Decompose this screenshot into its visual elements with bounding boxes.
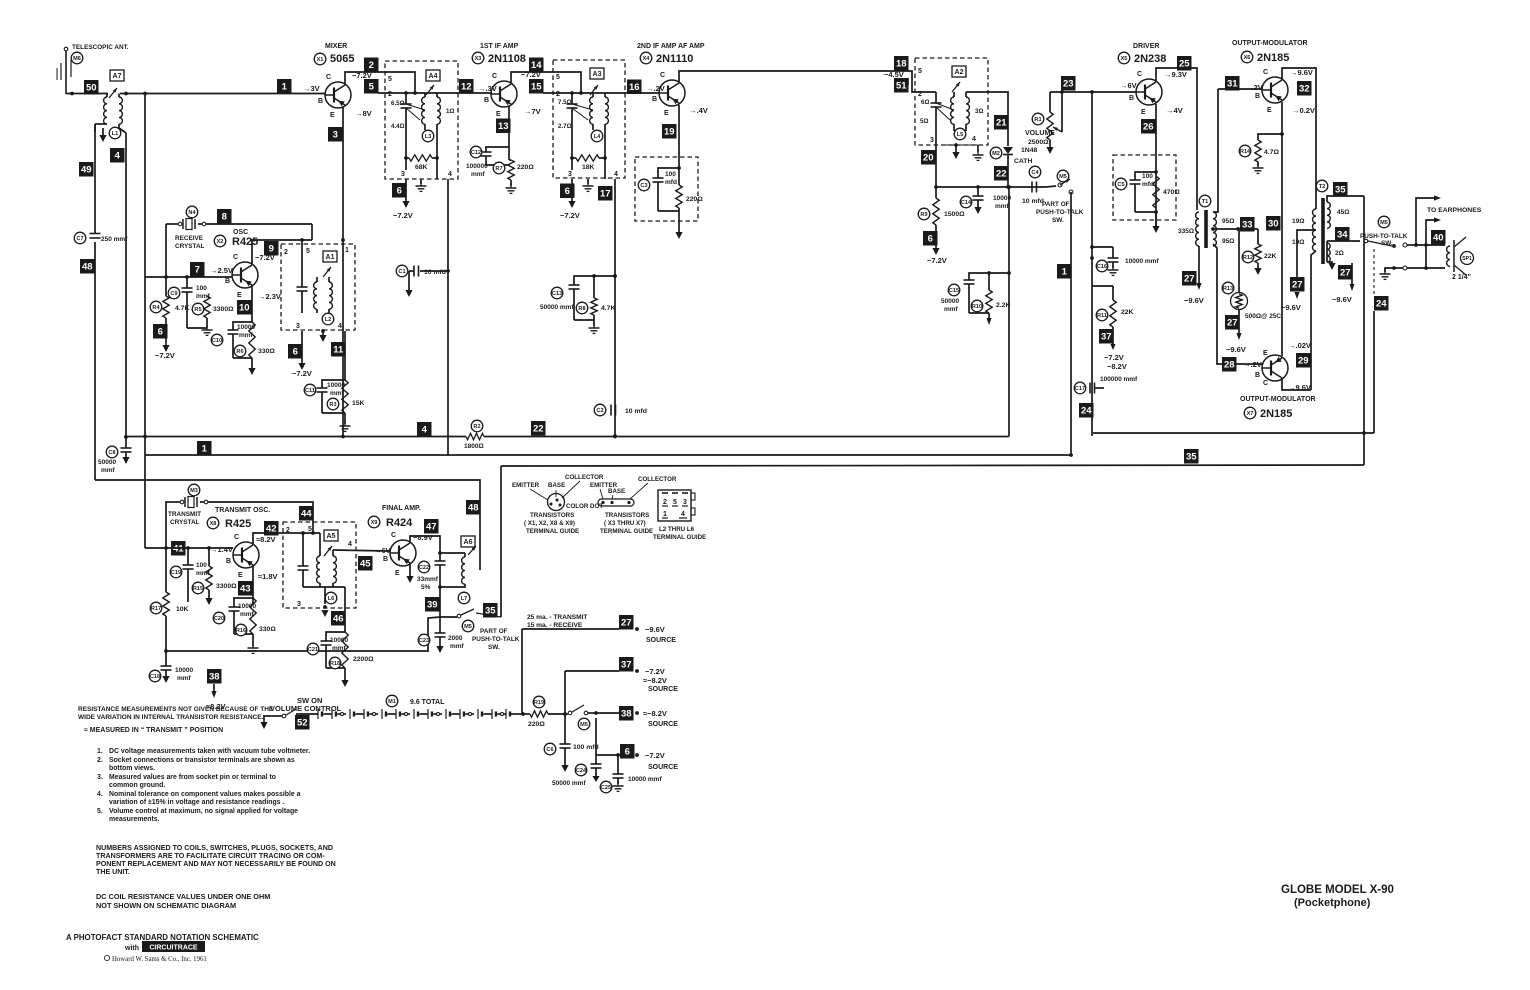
capacitor C16 10000mmf: [1096, 260, 1108, 272]
svg-text:C: C: [492, 73, 497, 80]
svg-text:mmf: mmf: [995, 203, 1010, 210]
svg-text:330Ω: 330Ω: [258, 348, 275, 355]
wire vertical antenna branch x95: [94, 124, 96, 480]
svg-text:A4: A4: [429, 73, 438, 80]
svg-text:31: 31: [1227, 79, 1238, 90]
resistor R12 22K: [1242, 229, 1276, 275]
callout 12: [459, 79, 474, 94]
callout 22 on bus A: [531, 421, 546, 436]
svg-text:2N1110: 2N1110: [656, 53, 693, 65]
svg-text:6Ω: 6Ω: [921, 99, 929, 106]
svg-text:4.7K: 4.7K: [175, 305, 189, 312]
svg-text:34: 34: [1337, 230, 1348, 241]
voltage ≈8.2V at X8 collector: [256, 535, 276, 544]
svg-text:X6: X6: [1244, 55, 1251, 61]
svg-text:37: 37: [621, 660, 632, 671]
node plug A7: [109, 70, 124, 98]
L5 pin 4: [972, 136, 976, 143]
wire down from earphone gnd node: [1373, 311, 1375, 433]
wire crystal to collector node: [206, 224, 312, 240]
svg-text:27: 27: [621, 618, 632, 629]
transformer T2: [1292, 180, 1349, 264]
svg-text:38: 38: [621, 709, 632, 720]
callout 5: [364, 79, 379, 94]
wire X3 emitter down: [508, 106, 510, 160]
transistor X3: [484, 73, 517, 118]
resistor R19 zigzag: [528, 711, 548, 728]
wire X2 emitter down: [251, 286, 253, 322]
svg-text:2200Ω: 2200Ω: [353, 656, 374, 663]
callout 15: [529, 79, 544, 94]
label 25ma transmit: [527, 614, 587, 621]
svg-text:RECEIVE: RECEIVE: [175, 235, 204, 242]
svg-text:C21: C21: [308, 647, 318, 653]
svg-text:mfd: mfd: [665, 179, 677, 186]
svg-text:49: 49: [81, 165, 92, 176]
wire X2 base line: [145, 275, 232, 279]
svg-text:→6V: →6V: [1120, 81, 1137, 90]
L5 pin 2: [918, 91, 922, 98]
svg-text:DC COIL RESISTANCE VALUES: DC COIL RESISTANCE VALUES UNDER ONE OHM: [96, 892, 270, 901]
svg-text:→6V: →6V: [374, 546, 391, 555]
svg-text:A PHOTOFACT STANDARD NOTATI: A PHOTOFACT STANDARD NOTATION SCHEMATIC: [66, 933, 259, 942]
svg-text:39: 39: [427, 600, 438, 611]
svg-text:Socket connections or transist: Socket connections or transistor termina…: [109, 757, 295, 764]
svg-text:VOLUME CONTROL: VOLUME CONTROL: [270, 704, 342, 713]
callout 37 source: [619, 657, 678, 693]
svg-text:variation of ±15% in voltage a: variation of ±15% in voltage and resista…: [109, 799, 284, 806]
svg-text:R9: R9: [920, 212, 927, 218]
capacitor C16 body: [1108, 247, 1160, 275]
wire 38 rail: [0, 0, 1, 1]
wire crystal loop: [166, 502, 313, 548]
svg-text:EMITTER: EMITTER: [512, 482, 540, 489]
wire 15 to L4: [543, 91, 660, 95]
svg-text:1800Ω: 1800Ω: [464, 443, 484, 450]
footer photofact line: [66, 933, 259, 942]
callout 32: [1297, 81, 1312, 96]
capacitor C13 50000mmf: [540, 274, 617, 320]
svg-text:19Ω: 19Ω: [1292, 218, 1304, 225]
wire antenna to switch A7: [66, 92, 108, 96]
callout 11: [331, 342, 346, 357]
svg-text:E: E: [395, 570, 400, 577]
svg-text:5: 5: [388, 76, 392, 83]
svg-text:3: 3: [930, 137, 934, 144]
label DRIVER X5 2N238: [1118, 43, 1166, 65]
resistor R8 4.7K: [576, 276, 615, 333]
svg-text:A6: A6: [464, 539, 473, 546]
callout 41: [171, 541, 186, 556]
svg-text:3: 3: [296, 323, 300, 330]
callout 48 final: [466, 500, 481, 515]
svg-text:220Ω: 220Ω: [517, 164, 534, 171]
svg-text:95Ω: 95Ω: [1222, 238, 1234, 245]
wire X3 collector up right: [511, 72, 581, 92]
wire C16 top: [1090, 245, 1113, 249]
label OUTPUT-MODULATOR X7 2N185: [1240, 396, 1316, 420]
svg-text:C24: C24: [576, 768, 587, 774]
note resistance measurements: [78, 706, 274, 734]
callout 27 source: [619, 615, 676, 644]
svg-text:100 mfd: 100 mfd: [573, 744, 599, 751]
svg-text:15: 15: [531, 82, 542, 93]
L2 pin 2: [284, 249, 288, 256]
svg-text:29: 29: [1298, 356, 1309, 367]
callout 21: [994, 115, 1009, 130]
node plug A4: [426, 70, 440, 95]
footer copyright: [104, 955, 206, 963]
wire T2 primary center tap to rail: [1297, 230, 1316, 290]
callout 27 below R13: [1225, 309, 1246, 354]
svg-text:mmf: mmf: [944, 306, 959, 313]
earphone arrow lower: [1424, 217, 1441, 270]
capacitor C21 10000mmf: [307, 587, 348, 668]
callout 46: [331, 611, 346, 626]
capacitor C11 and R3 box: [304, 331, 345, 413]
svg-text:2N185: 2N185: [1260, 408, 1292, 420]
callout 10: [237, 300, 252, 315]
callout 6 below L3: [392, 179, 413, 220]
callout 27 right of X6: [1281, 277, 1305, 312]
L5 input cap: [931, 92, 955, 120]
svg-text:E: E: [1141, 109, 1146, 116]
voltage →4V at X5 emitter: [1166, 106, 1183, 115]
resistor R11 22K: [1092, 286, 1134, 327]
wire vertical x126 L1 to bus A: [125, 133, 127, 437]
callout 6 source: [620, 744, 678, 771]
svg-text:13: 13: [498, 121, 509, 132]
capacitor C12 100000mmf: [466, 146, 509, 178]
svg-text:B: B: [226, 558, 231, 565]
svg-text:TRANSMIT: TRANSMIT: [168, 511, 201, 518]
callout 4 on bus A: [417, 422, 432, 437]
svg-text:27: 27: [1292, 280, 1303, 291]
svg-text:2.7Ω: 2.7Ω: [558, 123, 572, 130]
svg-text:50000: 50000: [98, 459, 116, 466]
svg-text:TO EARPHONES: TO EARPHONES: [1427, 207, 1482, 214]
svg-text:10 mfd: 10 mfd: [424, 269, 446, 276]
L5 pin 5: [918, 68, 922, 75]
telescopic antenna M6: [57, 44, 129, 94]
L3 pin 4: [448, 171, 452, 178]
T1 secondary center tap: [1211, 227, 1258, 231]
output coil L7: [440, 536, 476, 604]
svg-text:C: C: [234, 534, 239, 541]
svg-text:220Ω: 220Ω: [686, 196, 703, 203]
svg-text:M3: M3: [190, 488, 198, 494]
svg-text:3Ω: 3Ω: [975, 108, 983, 115]
svg-text:19Ω: 19Ω: [1292, 239, 1304, 246]
capacitor C2 10mfd: [594, 404, 647, 416]
capacitor C14 10000mmf: [960, 187, 1011, 214]
capacitor C15 50000mmf: [941, 271, 1011, 313]
svg-text:B: B: [225, 278, 230, 285]
svg-text:C: C: [391, 532, 396, 539]
L6 cap: [298, 533, 346, 587]
svg-text:C2: C2: [596, 408, 603, 414]
svg-text:X4: X4: [643, 56, 651, 62]
wire bus A up at x1009: [1008, 187, 1010, 437]
svg-text:10000 mmf: 10000 mmf: [1125, 258, 1159, 265]
svg-text:C: C: [1263, 380, 1268, 387]
svg-text:5: 5: [306, 248, 310, 255]
L6 center ground: [321, 587, 328, 617]
callout 47: [424, 519, 439, 534]
callout 28: [1222, 357, 1237, 372]
label FINAL AMP X9 R424: [368, 505, 421, 529]
svg-text:−7.2V: −7.2V: [645, 667, 665, 676]
label 2ND IF AMP AF AMP X4 2N1110: [637, 43, 705, 65]
svg-text:3.: 3.: [97, 774, 103, 781]
callout 13: [496, 119, 511, 134]
svg-text:B: B: [652, 96, 657, 103]
svg-text:with: with: [124, 945, 139, 952]
svg-text:50000 mmf: 50000 mmf: [552, 780, 586, 787]
svg-text:C5: C5: [1117, 182, 1124, 188]
callout 33: [1240, 217, 1255, 232]
svg-text:4.7K: 4.7K: [601, 305, 615, 312]
svg-text:10: 10: [239, 303, 250, 314]
wire L2 pin1 to mixer emitter line: [0, 0, 1, 1]
transformer L4 dashed box: [553, 60, 625, 178]
svg-text:335Ω: 335Ω: [1178, 228, 1194, 235]
resistor R7 220Ω: [493, 160, 534, 180]
wire L6 secondary to X9 base: [333, 541, 390, 551]
title GLOBE MODEL X-90: [1281, 884, 1394, 909]
svg-text:CRYSTAL: CRYSTAL: [175, 243, 205, 250]
svg-text:mmf: mmf: [471, 171, 486, 178]
svg-text:4: 4: [681, 511, 685, 518]
callout 17: [598, 186, 613, 201]
voltage →.2V at X7 base: [1243, 360, 1262, 369]
svg-text:2: 2: [284, 249, 288, 256]
callout 49: [79, 162, 94, 177]
callout 16: [627, 80, 642, 95]
svg-text:3: 3: [401, 171, 405, 178]
svg-text:R11: R11: [1097, 313, 1107, 319]
svg-text:COLLECTOR: COLLECTOR: [565, 474, 604, 481]
svg-text:R19: R19: [534, 700, 544, 706]
switch M5 earphone: [1360, 216, 1408, 248]
earphone arrow upper: [1416, 195, 1441, 245]
svg-text:B: B: [484, 97, 489, 104]
wire node to mixer base: [120, 92, 325, 96]
L5 windings: [951, 92, 970, 140]
svg-text:(Pocketphone): (Pocketphone): [1294, 897, 1371, 909]
svg-text:TELESCOPIC ANT.: TELESCOPIC ANT.: [72, 44, 129, 51]
svg-text:2N238: 2N238: [1134, 53, 1166, 65]
svg-text:C4: C4: [1031, 170, 1039, 176]
svg-text:SOURCE: SOURCE: [648, 686, 678, 693]
svg-text:−8.9V: −8.9V: [413, 533, 433, 542]
svg-text:2: 2: [918, 91, 922, 98]
svg-text:C7: C7: [76, 236, 83, 242]
callout 34: [1335, 227, 1350, 242]
svg-text:TRANSISTORS: TRANSISTORS: [605, 512, 649, 519]
svg-text:X3: X3: [475, 56, 482, 62]
callout 1 mid: [1057, 264, 1072, 279]
svg-text:−9.6V: −9.6V: [645, 625, 665, 634]
svg-text:45Ω: 45Ω: [1337, 209, 1349, 216]
callout 30: [1266, 216, 1281, 231]
svg-text:M5: M5: [1380, 220, 1388, 226]
svg-text:TERMINAL GUIDE: TERMINAL GUIDE: [653, 534, 706, 541]
wire X6 base from T1: [1213, 89, 1262, 212]
svg-text:→1.4V: →1.4V: [210, 545, 233, 554]
svg-text:R425: R425: [225, 518, 251, 530]
svg-text:C20: C20: [214, 616, 224, 622]
wire X9 out down: [439, 587, 441, 617]
voltage →9.6V at X7 collector: [1288, 383, 1311, 392]
wire R19 to M5 battery switch: [548, 712, 567, 716]
svg-text:R15: R15: [193, 586, 203, 592]
callout 14: [529, 58, 544, 73]
callout 6 below L2: [288, 331, 312, 378]
L3 pin 2: [388, 91, 392, 98]
svg-text:E: E: [237, 292, 242, 299]
callout 6 below R4: [153, 318, 175, 360]
svg-text:→4V: →4V: [1166, 106, 1183, 115]
callout 35 T2: [1333, 182, 1348, 197]
svg-text:50000: 50000: [941, 298, 959, 305]
callout 50: [84, 80, 99, 95]
transistor X6: [1255, 69, 1288, 114]
svg-text:16: 16: [629, 82, 640, 93]
capacitor C2 plates: [611, 405, 616, 416]
svg-text:L2: L2: [325, 317, 332, 323]
callout 38: [207, 669, 222, 684]
svg-text:Volume control at maximum, no: Volume control at maximum, no signal app…: [109, 808, 298, 815]
svg-text:330Ω: 330Ω: [259, 626, 276, 633]
svg-text:C15: C15: [949, 288, 959, 294]
svg-text:1: 1: [202, 444, 208, 455]
svg-text:C11: C11: [305, 388, 315, 394]
svg-text:R14: R14: [1240, 149, 1251, 155]
voltage −7.2V X3: [521, 70, 541, 79]
label SW ON VOLUME CONTROL: [270, 696, 342, 713]
svg-text:M6: M6: [73, 56, 81, 62]
wire -7.2V/-8.2V source line: [565, 670, 619, 672]
svg-text:32: 32: [1299, 84, 1310, 95]
callout 27 below T2: [1332, 263, 1355, 304]
svg-text:N4: N4: [188, 210, 196, 216]
wire -9.6V source line: [522, 628, 619, 630]
node plug A2: [952, 66, 966, 92]
svg-text:18K: 18K: [582, 164, 595, 171]
svg-text:TERMINAL GUIDE: TERMINAL GUIDE: [600, 528, 653, 535]
driver emitter dashed box: [1113, 155, 1176, 220]
svg-text:250 mmf: 250 mmf: [101, 236, 128, 243]
wire M5 down to callout 1: [1070, 192, 1072, 455]
svg-text:12: 12: [461, 82, 472, 93]
svg-text:SOURCE: SOURCE: [648, 764, 678, 771]
L5 value 3Ω: [975, 108, 983, 115]
svg-text:C9: C9: [170, 291, 177, 297]
svg-text:21: 21: [996, 118, 1007, 129]
svg-text:T1: T1: [1202, 199, 1209, 205]
callout 43: [238, 581, 253, 596]
svg-text:7: 7: [195, 265, 200, 276]
svg-text:24: 24: [1376, 299, 1387, 310]
callout 39: [425, 597, 440, 612]
svg-text:A2: A2: [955, 69, 964, 76]
svg-text:−8.2V: −8.2V: [1107, 362, 1127, 371]
diode M2 1N48: [990, 140, 1037, 187]
svg-text:8: 8: [222, 212, 227, 223]
svg-text:1500Ω: 1500Ω: [944, 211, 965, 218]
svg-text:5: 5: [673, 499, 677, 506]
notes numbered list: [97, 748, 310, 823]
svg-text:X5: X5: [1121, 56, 1128, 62]
wire X8 emitter down: [252, 566, 254, 604]
svg-text:C8: C8: [108, 450, 115, 456]
svg-text:4: 4: [338, 323, 342, 330]
svg-text:GLOBE MODEL X-90: GLOBE MODEL X-90: [1281, 884, 1394, 896]
resistor R2 1800Ω label: [464, 420, 484, 450]
wire volume to driver base: [1050, 90, 1136, 94]
svg-text:PART OF: PART OF: [1042, 201, 1070, 208]
voltage →3V at X3 base: [478, 84, 497, 93]
voltage →0.2V at X6 emitter: [1292, 106, 1315, 115]
svg-text:28: 28: [1224, 360, 1235, 371]
svg-text:2Ω: 2Ω: [1335, 250, 1344, 257]
detector output bus: [934, 185, 1046, 189]
svg-text:A3: A3: [593, 71, 602, 78]
callout 1: [277, 79, 292, 94]
svg-text:4.4Ω: 4.4Ω: [391, 123, 405, 130]
wire X1 collector to L3: [345, 72, 415, 92]
L4 value 7.5Ω: [558, 99, 572, 106]
vertical x565 to 37 line: [564, 671, 566, 714]
thermistor R13 500ohm: [1222, 229, 1281, 320]
callout 48: [80, 259, 95, 274]
svg-text:( X1, X2, X8 & X9): ( X1, X2, X8 & X9): [524, 520, 575, 527]
svg-text:2 1/4": 2 1/4": [1452, 274, 1471, 281]
resistor R19 body: [0, 0, 1, 1]
svg-text:→.4V: →.4V: [689, 106, 708, 115]
svg-text:OSC: OSC: [233, 229, 248, 236]
svg-text:PUSH-TO-TALK: PUSH-TO-TALK: [1360, 233, 1408, 240]
svg-text:C6: C6: [546, 747, 553, 753]
node plug A5: [324, 530, 338, 556]
svg-text:5.: 5.: [97, 808, 103, 815]
resistor R14 4.7Ω: [1239, 134, 1282, 173]
svg-text:35: 35: [1335, 185, 1346, 196]
wire X8 collector: [253, 531, 320, 544]
callout 29: [1296, 353, 1311, 368]
callout 23: [1061, 76, 1076, 91]
svg-text:M1: M1: [388, 699, 396, 705]
switch M5 push-to-talk center: [1036, 170, 1084, 224]
svg-text:2000: 2000: [448, 635, 463, 642]
svg-text:mmf: mmf: [450, 643, 465, 650]
svg-text:DRIVER: DRIVER: [1133, 43, 1159, 50]
ground arrow below C3 network: [675, 232, 682, 239]
svg-text:3: 3: [333, 130, 338, 141]
svg-text:3300Ω: 3300Ω: [213, 306, 234, 313]
bus A right segment: [1093, 431, 1374, 435]
wire X6 emitter down to X7: [1280, 102, 1284, 356]
svg-text:−9.6V: −9.6V: [1332, 295, 1352, 304]
ground arrow below L1: [95, 124, 107, 142]
svg-text:22K: 22K: [1264, 253, 1277, 260]
crystal N4 receive: [166, 206, 206, 250]
capacitor C6 100mfd: [544, 714, 598, 772]
callout38 arrow: [206, 684, 226, 711]
svg-text:C: C: [233, 254, 238, 261]
svg-text:−9.6V: −9.6V: [1184, 296, 1204, 305]
